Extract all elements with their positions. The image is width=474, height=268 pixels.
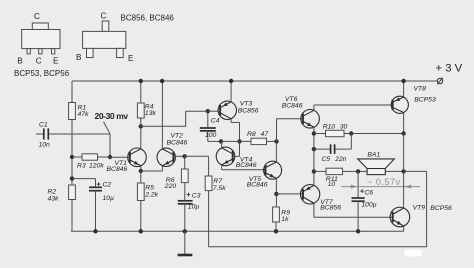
svg-text:C4: C4 xyxy=(211,118,220,125)
svg-text:30: 30 xyxy=(340,124,348,131)
svg-text:BCP53, BCP56: BCP53, BCP56 xyxy=(14,69,70,78)
svg-text:100: 100 xyxy=(205,132,217,139)
svg-text:C: C xyxy=(101,12,107,21)
svg-text:47: 47 xyxy=(261,131,269,138)
svg-text:~ 0.57v: ~ 0.57v xyxy=(367,177,401,187)
svg-text:220: 220 xyxy=(164,183,177,190)
svg-text:BC846: BC846 xyxy=(167,139,188,146)
svg-text:C: C xyxy=(34,12,40,21)
svg-text:2.2k: 2.2k xyxy=(144,192,158,199)
svg-text:43k: 43k xyxy=(48,196,60,203)
svg-text:R10: R10 xyxy=(323,124,336,131)
svg-text:VT3: VT3 xyxy=(240,100,253,107)
svg-text:+: + xyxy=(96,180,101,189)
svg-text:10: 10 xyxy=(328,181,336,188)
svg-text:R2: R2 xyxy=(48,189,57,196)
svg-text:R5: R5 xyxy=(145,185,154,192)
svg-text:C3: C3 xyxy=(192,192,201,199)
svg-text:BC846: BC846 xyxy=(236,162,257,169)
svg-text:VT2: VT2 xyxy=(171,132,184,139)
svg-text:1k: 1k xyxy=(281,216,289,223)
svg-text:C: C xyxy=(36,57,42,66)
svg-text:22n: 22n xyxy=(334,156,347,163)
svg-text:10n: 10n xyxy=(39,142,51,149)
svg-text:+ 3 V: + 3 V xyxy=(436,63,463,75)
svg-text:BC856: BC856 xyxy=(320,205,341,212)
svg-text:R8: R8 xyxy=(247,131,256,138)
svg-text:+: + xyxy=(186,190,191,199)
svg-text:BC856: BC856 xyxy=(238,108,259,115)
svg-text:BC846: BC846 xyxy=(282,103,303,110)
svg-text:BC846: BC846 xyxy=(247,182,268,189)
svg-text:R7: R7 xyxy=(213,178,222,185)
svg-text:VT9: VT9 xyxy=(413,205,426,212)
svg-text:B: B xyxy=(17,57,23,66)
svg-text:R3: R3 xyxy=(77,163,86,170)
svg-text:BC846: BC846 xyxy=(107,166,128,173)
svg-text:E: E xyxy=(53,57,59,66)
svg-text:13k: 13k xyxy=(145,110,157,117)
svg-text:10µ: 10µ xyxy=(103,195,115,202)
svg-text:BCP56: BCP56 xyxy=(430,205,452,212)
svg-text:B: B xyxy=(76,53,82,62)
svg-text:7.5k: 7.5k xyxy=(213,185,226,192)
svg-text:100µ: 100µ xyxy=(361,201,376,208)
svg-text:C2: C2 xyxy=(103,182,112,189)
svg-text:47k: 47k xyxy=(78,111,90,118)
svg-text:BA1: BA1 xyxy=(367,152,380,159)
svg-text:E: E xyxy=(128,54,134,63)
svg-text:C1: C1 xyxy=(39,122,48,129)
svg-text:C5: C5 xyxy=(322,156,331,163)
svg-text:C6: C6 xyxy=(364,190,373,197)
svg-text:BCP53: BCP53 xyxy=(414,97,436,104)
svg-text:VT8: VT8 xyxy=(414,85,427,92)
svg-text:10µ: 10µ xyxy=(188,204,200,211)
svg-text:20-30 mv: 20-30 mv xyxy=(95,111,129,121)
svg-text:BC856, BC846: BC856, BC846 xyxy=(121,14,175,23)
svg-text:120k: 120k xyxy=(89,163,104,170)
